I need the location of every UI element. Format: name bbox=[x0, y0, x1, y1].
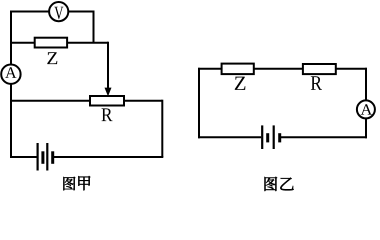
glyph 图 (of 图乙) bbox=[265, 177, 278, 191]
label R (right) bbox=[311, 76, 322, 90]
wire voltmeter to top-right corner bbox=[68, 11, 94, 13]
wire left vertical to rheostat bbox=[10, 100, 90, 102]
voltmeter V bbox=[49, 2, 68, 21]
resistor Z (left circuit) bbox=[35, 38, 67, 48]
wire right vertical (left circuit) bbox=[161, 100, 163, 157]
battery (right circuit) bbox=[262, 125, 280, 149]
glyph 乙 bbox=[280, 178, 293, 191]
wire top-left horizontal bbox=[10, 11, 49, 13]
glyph 甲 bbox=[78, 176, 90, 190]
wire left vertical (right circuit) bbox=[198, 68, 200, 139]
ammeter A (left) bbox=[1, 65, 20, 84]
wire bottom right (right circuit) bbox=[281, 136, 367, 138]
rheostat R (left circuit) bbox=[90, 96, 124, 106]
letter A (right ammeter) bbox=[361, 104, 373, 114]
wire between Z and R (right circuit) bbox=[254, 68, 303, 70]
wire left vertical lower bbox=[10, 84, 12, 158]
wire vertical drop from voltmeter wire bbox=[93, 12, 95, 43]
glyph 图 (of 图甲) bbox=[63, 177, 75, 191]
resistor R (right circuit) bbox=[303, 64, 336, 74]
wire bottom right (left circuit) bbox=[54, 156, 164, 158]
wire bottom left (left circuit) bbox=[10, 156, 37, 158]
arrowhead of wiper bbox=[105, 88, 112, 97]
wire rheostat to right vertical bbox=[124, 100, 162, 102]
wire resistor Z to wiper arm bbox=[67, 42, 108, 44]
label Z (right) bbox=[235, 77, 246, 90]
letter A (left ammeter) bbox=[5, 67, 16, 78]
wire left vertical upper bbox=[10, 11, 12, 66]
wire wiper arm vertical bbox=[107, 42, 109, 89]
battery (left circuit) bbox=[38, 143, 53, 171]
label Z (left) bbox=[47, 52, 57, 64]
caption 图乙 bbox=[265, 177, 294, 191]
wire R to top-right corner (right circuit) bbox=[336, 68, 367, 70]
resistor Z (right circuit) bbox=[222, 64, 254, 75]
wire right vertical lower (right circuit) bbox=[365, 118, 367, 138]
caption 图甲 bbox=[63, 176, 90, 190]
wire top left (right circuit) bbox=[198, 68, 222, 70]
ammeter A (right) bbox=[357, 100, 375, 118]
letter V (voltmeter) bbox=[54, 7, 63, 20]
wire bottom left (right circuit) bbox=[198, 136, 261, 138]
wire right vertical upper (right circuit) bbox=[365, 68, 367, 101]
label R (left) bbox=[101, 108, 112, 121]
wire to resistor Z bbox=[10, 42, 35, 44]
